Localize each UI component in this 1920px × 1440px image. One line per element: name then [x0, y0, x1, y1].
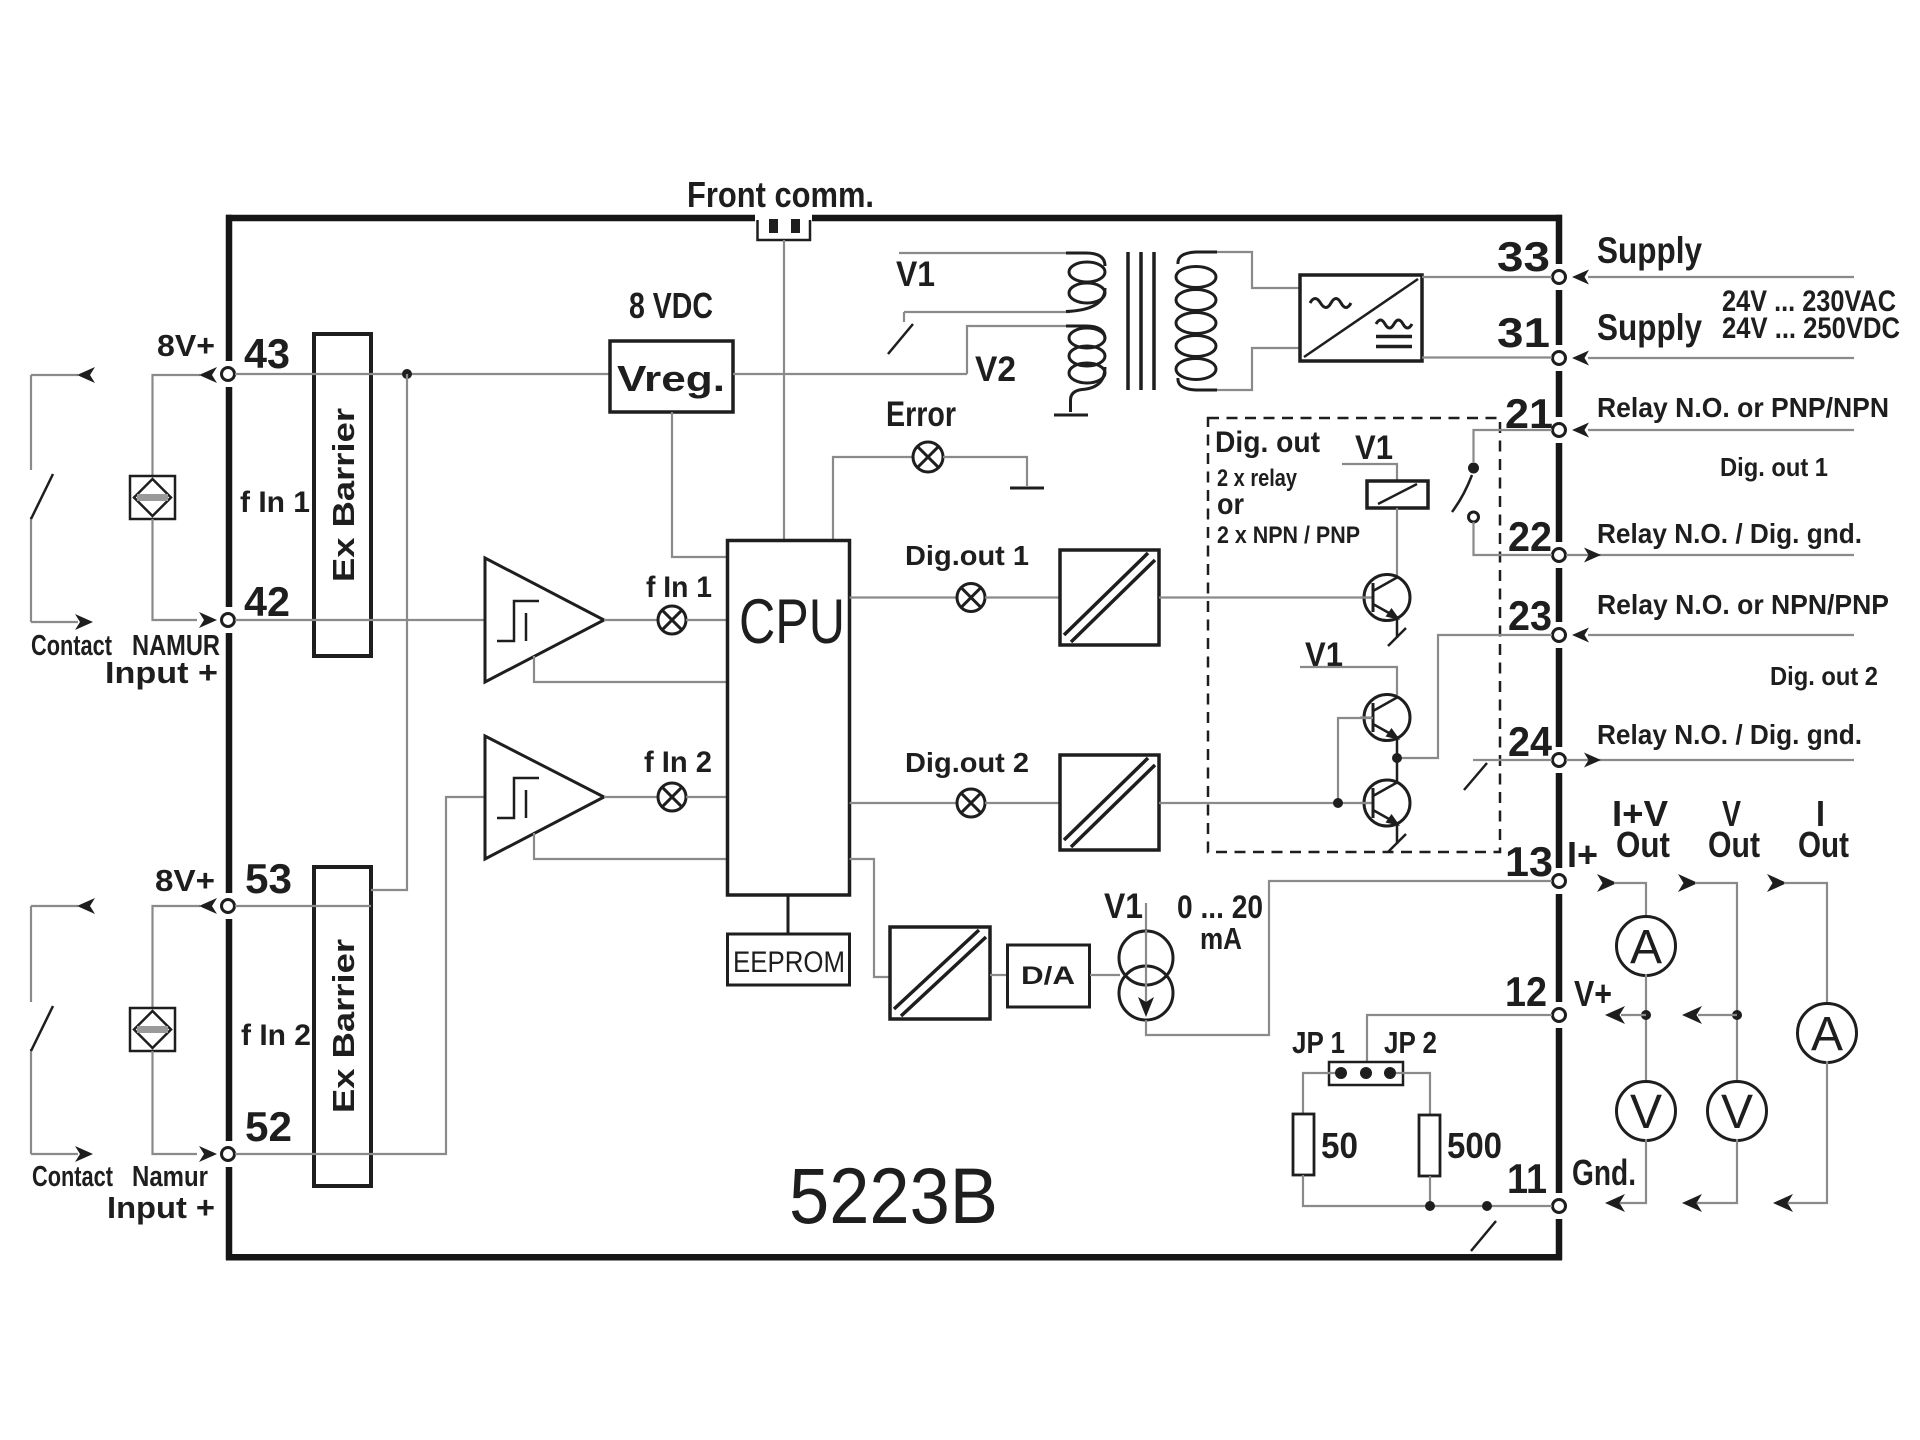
terminal 53 [222, 900, 235, 913]
junction 8V+ rail [402, 369, 412, 379]
wire 8V rail Vreg to V2 node [733, 373, 967, 375]
voltmeter col2 [1708, 1082, 1767, 1141]
svg-text:0 ... 20: 0 ... 20 [1177, 889, 1263, 925]
arrow into contact 2 top [77, 898, 95, 914]
arrow at terminal 42 [199, 612, 217, 628]
isolation point Dig.out 1 [957, 584, 985, 612]
wire relay contact to terminal 22 [1474, 522, 1553, 555]
wire error lamp to ground [943, 457, 1027, 486]
svg-text:V2: V2 [975, 350, 1016, 389]
svg-text:mA: mA [1200, 921, 1242, 956]
wire supply 33 external [1588, 276, 1854, 278]
wire NAMUR 2 top [153, 906, 201, 1008]
arrow into 23 [1572, 628, 1589, 643]
wire 22 external [1566, 554, 1854, 556]
resistor 500 [1419, 1115, 1440, 1176]
svg-text:8V+: 8V+ [157, 328, 215, 363]
wire JP2 to resistor 500 [1396, 1073, 1430, 1115]
wire trigger 2 feedback [534, 833, 727, 859]
terminal 31 [1553, 352, 1566, 365]
current source 0..20 mA [1119, 903, 1173, 1020]
transistor Q2 [1360, 695, 1410, 759]
svg-text:500: 500 [1447, 1125, 1502, 1166]
terminal 13 [1553, 875, 1566, 888]
CPU [728, 541, 850, 896]
ammeter col1 [1617, 917, 1676, 976]
svg-text:JP 1: JP 1 [1292, 1025, 1345, 1060]
schmitt trigger 1 [485, 558, 604, 682]
open emitter mark Q1 [1388, 628, 1406, 646]
wire Dig.out 2 to Q3 base [1159, 802, 1373, 804]
junction col2 V+ [1732, 1010, 1742, 1020]
isolation point f In 2 [658, 783, 686, 811]
wire terminal 21 to relay contact [1474, 430, 1553, 462]
svg-text:Ex Barrier: Ex Barrier [326, 939, 361, 1113]
svg-text:Namur: Namur [132, 1161, 208, 1193]
jumper header JP1/JP2 [1329, 1062, 1403, 1085]
wire f In 1 terminal 53 into barrier 2 [235, 905, 371, 907]
wire V1 tap [899, 252, 1068, 254]
wire to isolator 1 [985, 596, 1060, 598]
transformer secondary upper winding [1066, 253, 1105, 312]
wire JP1 to resistor 50 [1303, 1073, 1335, 1114]
wire junction to terminal 23 [1402, 635, 1552, 758]
Ex Barrier 1 [314, 334, 371, 656]
svg-text:33: 33 [1497, 233, 1550, 280]
wire relay coil to Q1 [1396, 508, 1398, 576]
terminal 33 [1553, 271, 1566, 284]
wire 24 external [1566, 759, 1854, 761]
svg-text:Supply: Supply [1597, 307, 1702, 348]
NAMUR sensor 1 [130, 476, 175, 519]
arrow col1 gnd [1605, 1194, 1625, 1212]
wire col1 top [1614, 883, 1646, 918]
arrow into 21 [1572, 423, 1589, 438]
svg-text:V+: V+ [1574, 973, 1612, 1014]
arrow col2 gnd [1682, 1194, 1702, 1212]
dig out option dashed box [1208, 418, 1500, 852]
arrow col2 V+ into 12 [1682, 1006, 1702, 1024]
svg-text:53: 53 [245, 855, 292, 902]
arrow out col3 I [1767, 874, 1787, 892]
wire Vreg output to CPU [672, 412, 727, 557]
svg-text:or: or [1217, 488, 1244, 521]
wire Dig.out 2 from CPU [850, 802, 958, 804]
arrow out col1 I+V [1597, 874, 1617, 892]
wire current source to terminal 13 [1146, 881, 1552, 1035]
terminal 12 [1553, 1009, 1566, 1022]
terminal 11 [1553, 1200, 1566, 1213]
wire NAMUR 2 bottom [153, 1051, 198, 1154]
wire V2 tap [967, 326, 1070, 374]
svg-text:A: A [1811, 1008, 1843, 1061]
svg-text:Error: Error [886, 395, 956, 434]
EEPROM [728, 934, 850, 985]
isolator analog out [890, 927, 990, 1019]
terminal 42 [222, 614, 235, 627]
wire contact 2 top stub [31, 905, 78, 907]
svg-text:Relay N.O. / Dig. gnd.: Relay N.O. / Dig. gnd. [1597, 518, 1862, 549]
wire isolator to D/A [990, 974, 1007, 976]
svg-text:Out: Out [1708, 824, 1760, 865]
wire col1 ammeter to V+ [1645, 974, 1647, 1083]
terminal 43 [222, 368, 235, 381]
svg-text:Contact: Contact [31, 630, 112, 662]
svg-text:Dig.out 1: Dig.out 1 [905, 540, 1029, 571]
svg-text:23: 23 [1508, 592, 1552, 639]
wire switch common tap [904, 312, 1070, 322]
contact switch 1 [30, 375, 32, 622]
wire col2 voltmeter to gnd [1697, 1139, 1737, 1203]
svg-text:24V ... 250VDC: 24V ... 250VDC [1722, 312, 1900, 345]
arrow at terminal 43 [199, 367, 217, 383]
wire contact 2 bottom stub [31, 1153, 78, 1155]
device outline bottom border [226, 1254, 1562, 1261]
svg-text:Out: Out [1616, 824, 1670, 865]
svg-text:8V+: 8V+ [155, 863, 215, 898]
svg-text:42: 42 [244, 578, 290, 625]
transformer primary winding [1176, 252, 1217, 390]
device outline right border [1556, 215, 1563, 1260]
wire col3 top [1784, 883, 1827, 1005]
switch V1/V2 blade [888, 324, 913, 354]
wire primary to converter top [1217, 252, 1300, 288]
open emitter mark Q3 [1388, 834, 1406, 852]
svg-text:CPU: CPU [739, 587, 845, 657]
svg-text:f In 1: f In 1 [646, 571, 712, 604]
wire resistors to terminal 11 [1303, 1175, 1552, 1206]
svg-text:D/A: D/A [1021, 962, 1075, 990]
arrow out of contact 2 bottom [75, 1146, 93, 1162]
svg-text:V1: V1 [1355, 429, 1393, 467]
wire 23 external [1588, 634, 1854, 636]
schmitt trigger 2 [485, 736, 604, 859]
terminal 52 [222, 1148, 235, 1161]
wire terminal 24 stub [1473, 759, 1552, 761]
relay coil K1 [1367, 481, 1428, 508]
wire f In 2 terminal 52 to trigger 2 [235, 797, 485, 1154]
wire Dig.out 1 to Q1 base [1159, 596, 1373, 598]
wire front comm to CPU [783, 240, 785, 540]
wire col2 top [1695, 883, 1737, 1083]
ground error lamp [1010, 487, 1044, 490]
svg-text:Input +: Input + [105, 655, 218, 690]
wire col3 ammeter to gnd [1788, 1061, 1827, 1203]
svg-text:V: V [1721, 1086, 1753, 1139]
arrow into contact 1 top [77, 367, 95, 383]
AC/DC converter [1300, 275, 1422, 361]
wire supply 31 external [1588, 357, 1854, 359]
svg-text:V1: V1 [1305, 636, 1343, 674]
error lamp indicator [913, 442, 943, 472]
device outline left border [226, 215, 233, 1260]
terminal 22 [1553, 549, 1566, 562]
terminal 21 [1553, 424, 1566, 437]
D/A converter [1008, 945, 1090, 1007]
svg-text:Dig. out 2: Dig. out 2 [1770, 661, 1878, 691]
svg-text:50: 50 [1321, 1125, 1358, 1166]
svg-text:5223B: 5223B [789, 1151, 998, 1240]
svg-text:Input +: Input + [107, 1190, 215, 1225]
svg-text:22: 22 [1508, 513, 1552, 560]
svg-text:V1: V1 [1104, 887, 1143, 926]
svg-text:8 VDC: 8 VDC [629, 285, 713, 326]
wire terminal 12 to jumpers [1367, 1015, 1552, 1062]
wire converter to terminal 33 [1422, 276, 1552, 278]
arrow into 33 [1572, 270, 1589, 285]
svg-text:43: 43 [244, 330, 290, 377]
junction resistor 500 gnd [1425, 1201, 1435, 1211]
junction relay contact fixed [1468, 463, 1479, 474]
svg-text:Relay N.O. or PNP/NPN: Relay N.O. or PNP/NPN [1597, 392, 1889, 423]
wire 8V+ rail terminal 43 to Vreg [235, 373, 610, 375]
arrow out of 24 [1584, 753, 1601, 768]
ground transformer [1054, 414, 1088, 417]
svg-text:JP 2: JP 2 [1384, 1025, 1437, 1060]
svg-text:Vreg.: Vreg. [617, 358, 725, 399]
relay contact open end [1469, 512, 1479, 522]
svg-text:Dig. out: Dig. out [1215, 426, 1320, 459]
svg-text:f In 1: f In 1 [240, 486, 310, 519]
svg-text:Relay N.O. or NPN/PNP: Relay N.O. or NPN/PNP [1597, 589, 1889, 620]
svg-text:11: 11 [1507, 1155, 1547, 1202]
transistor Q3 [1360, 758, 1410, 844]
junction Q2 emitter Q3 collector [1392, 753, 1402, 763]
junction Dig.out 2 base node [1333, 798, 1343, 808]
arrow out of 22 [1584, 548, 1601, 563]
contact switch 2 [30, 906, 32, 1154]
Ex Barrier 2 [314, 867, 371, 1186]
svg-text:13: 13 [1505, 838, 1553, 885]
svg-text:Front comm.: Front comm. [687, 174, 874, 215]
wire Q2 base from junction [1338, 718, 1373, 803]
wire NAMUR 1 bottom [153, 519, 198, 620]
arrow col3 gnd [1773, 1194, 1793, 1212]
isolation point Dig.out 2 [957, 789, 985, 817]
wire NAMUR 1 top [153, 375, 201, 476]
arrow col1 V+ into 12 [1605, 1006, 1625, 1024]
arrow into 31 [1572, 351, 1589, 366]
terminal 23 [1553, 629, 1566, 642]
svg-text:Supply: Supply [1597, 230, 1702, 271]
wire col1 voltmeter to gnd [1620, 1139, 1646, 1203]
svg-text:V1: V1 [896, 255, 935, 294]
svg-text:Gnd.: Gnd. [1572, 1152, 1636, 1193]
svg-text:52: 52 [245, 1103, 292, 1150]
wire f In 2 into CPU [686, 796, 727, 798]
arrow at terminal 52 [199, 1146, 217, 1162]
voltmeter col1 [1617, 1082, 1676, 1141]
open contact mark 11 [1471, 1221, 1496, 1251]
device outline 5223B top border [226, 215, 1562, 222]
NAMUR sensor 2 [130, 1008, 175, 1051]
wire f In 1 into CPU [686, 619, 727, 621]
wire D/A to current source [1090, 974, 1120, 976]
wire converter to terminal 31 [1422, 356, 1552, 358]
wire 8V+ rail down to Ex Barrier 2 [371, 374, 407, 890]
wire f In 1 terminal 42 to trigger 1 [235, 619, 485, 621]
isolator Dig.out 2 [1060, 755, 1159, 850]
svg-text:Ex Barrier: Ex Barrier [326, 408, 361, 582]
svg-text:I+: I+ [1567, 834, 1598, 875]
front comm connector [758, 220, 811, 240]
wire Dig.out 1 from CPU [850, 596, 958, 598]
isolation point f In 1 [658, 606, 686, 634]
relay contact blade [1452, 475, 1472, 512]
junction col1 V+ [1641, 1010, 1651, 1020]
svg-text:24: 24 [1508, 718, 1553, 765]
svg-text:Out: Out [1798, 824, 1849, 865]
open contact mark 24 [1464, 763, 1487, 790]
wire CPU to EEPROM [787, 895, 790, 934]
svg-text:f In 2: f In 2 [241, 1019, 311, 1052]
wire contact 1 bottom stub [31, 621, 78, 623]
svg-text:Relay N.O. / Dig. gnd.: Relay N.O. / Dig. gnd. [1597, 719, 1862, 750]
wire trigger 2 output [604, 796, 658, 798]
transistor Q1 [1360, 575, 1410, 639]
isolator Dig.out 1 [1060, 550, 1159, 645]
wire error lamp from CPU [833, 457, 913, 540]
svg-text:EEPROM: EEPROM [733, 946, 845, 979]
voltage regulator Vreg. [610, 341, 733, 412]
transformer secondary lower winding [1066, 326, 1105, 412]
transformer core [1128, 252, 1154, 390]
svg-text:A: A [1630, 921, 1662, 974]
wire contact 1 top stub [31, 374, 78, 376]
svg-text:31: 31 [1497, 309, 1550, 356]
wire CPU to analog isolator [850, 859, 891, 977]
svg-text:Contact: Contact [32, 1161, 113, 1193]
svg-text:2 x NPN / PNP: 2 x NPN / PNP [1217, 522, 1360, 549]
terminal 24 [1553, 754, 1566, 767]
ammeter col3 [1798, 1004, 1857, 1063]
arrow out of contact 1 bottom [75, 614, 93, 630]
svg-text:f In 2: f In 2 [644, 746, 712, 779]
wire trigger 1 feedback [534, 656, 727, 682]
arrow at terminal 53 [199, 898, 217, 914]
wire 21 external [1588, 429, 1854, 431]
svg-text:Dig. out 1: Dig. out 1 [1720, 452, 1828, 482]
wire to isolator 2 [985, 802, 1060, 804]
svg-text:Dig.out 2: Dig.out 2 [905, 747, 1029, 778]
resistor 50 [1293, 1114, 1314, 1175]
wire primary to converter bottom [1217, 348, 1300, 390]
wire trigger 1 output [604, 619, 658, 621]
svg-text:V: V [1630, 1086, 1662, 1139]
svg-text:12: 12 [1505, 968, 1547, 1015]
junction gnd switch node [1482, 1201, 1492, 1211]
arrow out col2 V [1678, 874, 1698, 892]
